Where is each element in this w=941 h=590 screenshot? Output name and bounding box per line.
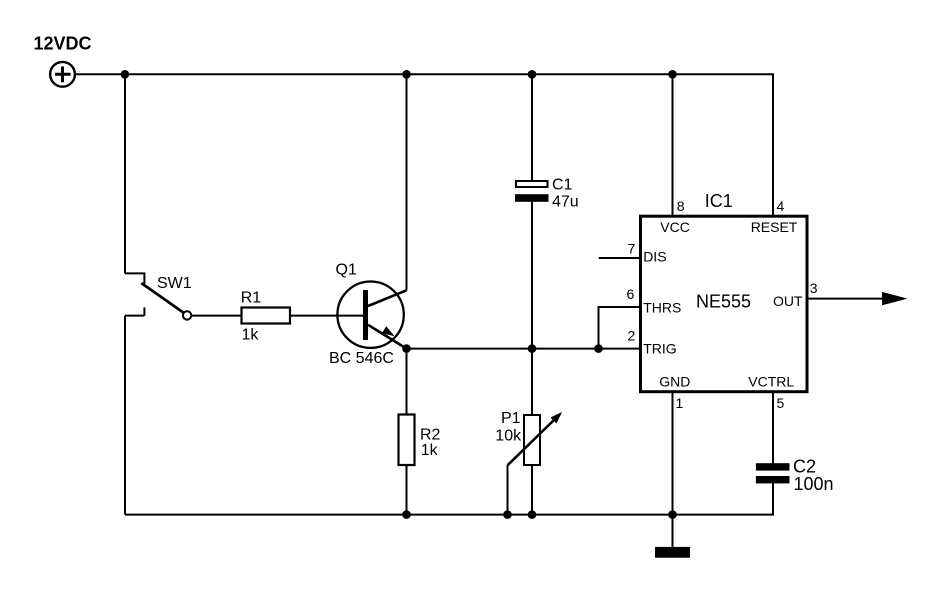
wire switch to R1	[192, 315, 241, 317]
svg-text:R2: R2	[420, 427, 441, 444]
svg-text:2: 2	[628, 328, 636, 344]
wire THRS branch	[599, 307, 641, 349]
svg-text:10k: 10k	[495, 427, 522, 444]
capacitor C1 polarized	[515, 181, 549, 202]
IC IC1 NE555 body	[641, 216, 808, 392]
svg-text:VCC: VCC	[660, 219, 690, 235]
node bottom rail / P1	[528, 510, 537, 519]
svg-text:P1: P1	[501, 410, 521, 427]
transistor Q1	[337, 282, 406, 349]
svg-text:SW1: SW1	[157, 275, 192, 292]
node TRIG / THRS branch	[594, 344, 603, 353]
node top rail / pin8 branch	[668, 70, 677, 79]
wire pin 1 GND to bottom rail	[672, 391, 674, 515]
wire R1 to Q1 base	[291, 315, 364, 317]
node top rail / collector branch	[402, 70, 411, 79]
svg-text:100n: 100n	[794, 474, 834, 494]
svg-text:7: 7	[628, 240, 636, 256]
svg-text:C1: C1	[552, 177, 573, 194]
voltage source positive terminal	[50, 62, 75, 87]
wire TRIG row to R2	[406, 349, 408, 415]
svg-text:THRS: THRS	[643, 299, 681, 315]
svg-text:R1: R1	[241, 290, 262, 307]
potentiometer P1	[508, 412, 563, 515]
output arrowhead	[882, 292, 908, 305]
node top rail / C1 branch	[528, 70, 537, 79]
wire emitter row to TRIG pin	[407, 348, 641, 350]
wire pin 5 VCTRL to C2	[772, 391, 774, 463]
wire bottom rail	[125, 483, 773, 514]
wire left branch switch to bottom rail	[124, 316, 126, 515]
svg-text:GND: GND	[659, 374, 690, 390]
svg-text:OUT: OUT	[773, 293, 803, 309]
wire C1 down through TRIG row to P1	[531, 202, 533, 415]
svg-text:1: 1	[676, 395, 684, 411]
wire pin 8 VCC to top rail	[672, 74, 674, 216]
svg-text:DIS: DIS	[643, 249, 666, 265]
wire top rail to C1	[531, 74, 533, 180]
wire left branch down to switch	[124, 73, 126, 273]
wire R2 to bottom rail	[406, 465, 408, 515]
svg-text:RESET: RESET	[751, 219, 798, 235]
wire DIS stub	[599, 257, 640, 259]
node emitter junction	[402, 344, 411, 353]
node TRIG / C1 column	[528, 344, 537, 353]
svg-text:VCTRL: VCTRL	[748, 374, 794, 390]
wire P1 to bottom rail	[531, 465, 533, 515]
svg-text:BC 546C: BC 546C	[329, 350, 394, 367]
svg-text:4: 4	[777, 198, 785, 214]
capacitor C2	[756, 463, 790, 483]
svg-text:NE555: NE555	[696, 291, 751, 311]
svg-text:5: 5	[777, 395, 785, 411]
node top rail / left branch	[121, 70, 130, 79]
svg-text:3: 3	[810, 280, 818, 296]
switch SW1	[125, 273, 191, 319]
svg-text:6: 6	[627, 286, 635, 302]
ground	[655, 515, 690, 558]
svg-text:8: 8	[677, 198, 685, 214]
svg-text:IC1: IC1	[705, 191, 733, 211]
resistor R2	[399, 415, 415, 466]
wire top supply rail	[76, 74, 773, 216]
svg-text:1k: 1k	[421, 442, 439, 459]
wire collector to top rail	[406, 74, 408, 290]
svg-text:1k: 1k	[242, 327, 260, 344]
svg-text:TRIG: TRIG	[643, 341, 676, 357]
svg-text:Q1: Q1	[336, 262, 357, 279]
wire OUT pin 3	[807, 298, 885, 300]
resistor R1	[242, 308, 291, 324]
node bottom rail / ground	[668, 510, 677, 519]
node bottom rail / wiper	[503, 510, 512, 519]
svg-text:12VDC: 12VDC	[34, 34, 92, 54]
svg-text:47u: 47u	[552, 193, 579, 210]
node bottom rail / R2	[402, 510, 411, 519]
